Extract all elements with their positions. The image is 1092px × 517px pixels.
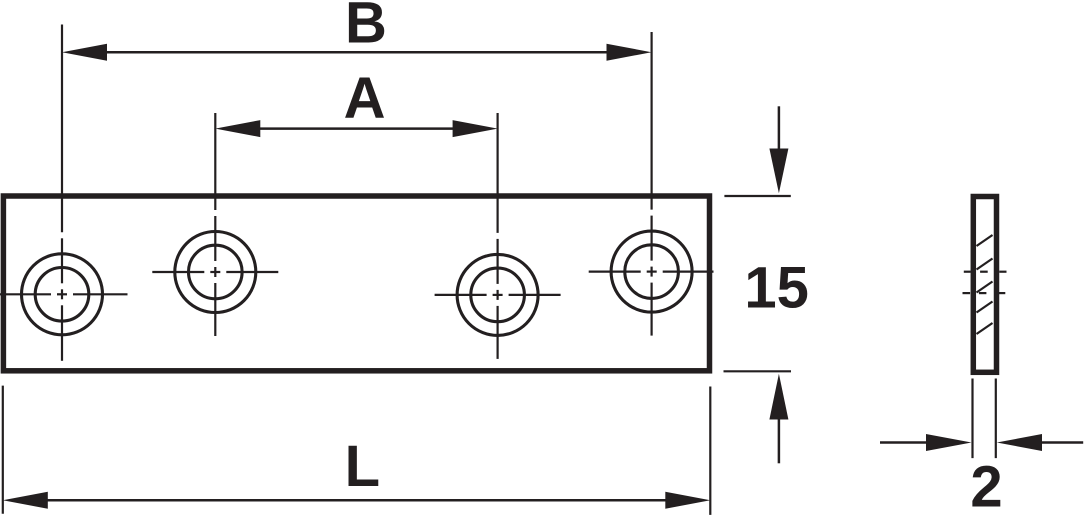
dimension L extension line right	[709, 387, 711, 515]
dimension A right arrow	[453, 120, 498, 137]
dimension 2 right arrow	[997, 434, 1042, 451]
dimension L extension line left	[2, 386, 4, 514]
dimension 2 left tail line	[880, 441, 927, 444]
dimension B line	[105, 51, 608, 54]
hole 2 centerline horizontal	[152, 271, 278, 273]
svg-text:2: 2	[970, 455, 1002, 517]
side view hatch slash 2	[977, 259, 993, 270]
hole 1 inner circle	[35, 268, 89, 322]
dimension 15 bottom extension line	[724, 370, 792, 372]
dimension 2 left arrow	[926, 434, 972, 451]
dimension 15 bottom arrow	[769, 374, 788, 420]
hole 3 inner circle	[471, 268, 525, 322]
hole 4 centerline vertical / B extension line right	[650, 32, 652, 336]
hole 1 outer circle	[22, 254, 103, 335]
hole 1 centerline vertical / B extension line left	[61, 25, 63, 361]
dimension B right arrow	[607, 44, 652, 61]
dimension 15 top arrow tail	[778, 106, 781, 150]
dimension 15 bottom arrow tail	[778, 418, 781, 463]
hole 4 outer circle	[611, 231, 692, 312]
hole 2 outer circle	[175, 232, 256, 313]
hole 4 centerline horizontal	[589, 271, 714, 273]
dimension 2 extension line right	[995, 379, 997, 459]
svg-text:B: B	[345, 0, 387, 56]
side view hatch slash 5	[977, 323, 993, 334]
hole 1 centerline horizontal	[0, 293, 128, 295]
dimension L left arrow	[3, 492, 48, 509]
dimension 15 top extension line	[724, 195, 790, 197]
dimension L right arrow	[665, 492, 710, 509]
dimension A line	[258, 127, 455, 130]
side view plate outline	[973, 197, 996, 373]
hole 3 outer circle	[457, 254, 538, 335]
dimension A left arrow	[215, 120, 260, 137]
side view hatch slash 3	[977, 282, 993, 293]
svg-text:L: L	[345, 434, 380, 499]
side view hatch slash 4	[977, 302, 993, 313]
svg-text:15: 15	[744, 256, 809, 321]
side view hatch slash 1	[977, 235, 993, 246]
dimension B left arrow	[62, 44, 107, 61]
svg-text:A: A	[344, 66, 386, 131]
hole 3 centerline vertical / A extension line right	[497, 113, 499, 359]
dimension 15 top arrow	[769, 149, 788, 194]
hole 2 inner circle	[189, 245, 243, 299]
side view dashed centerline lower	[963, 292, 1006, 294]
dimension 2 right tail line	[1041, 441, 1083, 444]
hole 2 centerline vertical / A extension line left	[214, 113, 216, 336]
side view dashed centerline upper	[964, 271, 1007, 273]
hole 3 centerline horizontal	[435, 294, 561, 296]
dimension 2 extension line left	[971, 379, 973, 459]
plate outline (front view)	[3, 196, 709, 371]
dimension L line	[45, 499, 668, 502]
hole 4 inner circle	[625, 245, 679, 299]
